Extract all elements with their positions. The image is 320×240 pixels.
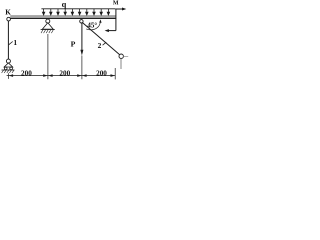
45 degree angle arc	[86, 21, 100, 30]
couple bottom arrow (points left)	[105, 29, 116, 32]
moment couple M: vertical bar	[115, 9, 117, 31]
svg-text:P: P	[71, 39, 76, 48]
pin joint under beam at P (circle)	[80, 20, 83, 23]
svg-text:M: M	[113, 0, 119, 6]
dimension extension line at x=116.6	[114, 68, 116, 79]
dimension extension line at x=47.9	[47, 34, 49, 79]
dim arrows segment 3	[82, 74, 87, 77]
distributed load q: tail line	[41, 8, 115, 10]
dimension line	[7, 75, 116, 77]
middle support hatching	[41, 30, 53, 33]
ground hatching	[2, 70, 14, 73]
svg-text:200: 200	[96, 69, 107, 77]
pin joint K (circle at beam left end)	[7, 17, 11, 21]
dimension extension line at x=8.2	[8, 73, 10, 79]
short post under anchor pin	[120, 58, 122, 69]
svg-text:K: K	[5, 9, 11, 17]
couple top arrow (points right)	[116, 8, 126, 11]
beam (gray bar with dark bottom edge)	[10, 15, 116, 19]
lower pin of rod 1	[6, 59, 10, 63]
force P arrow	[80, 23, 83, 56]
distributed load arrows	[42, 9, 109, 15]
dimension extension line at x=81.9 (below P arrow)	[81, 56, 83, 80]
anchor pin of rod 2	[119, 54, 123, 58]
45 deg arc arrowhead	[99, 19, 101, 22]
svg-text:200: 200	[59, 69, 70, 77]
label 1 leader tick	[9, 42, 13, 45]
roller support under rod 1 (triangle)	[4, 63, 13, 67]
wall line right of anchor pin	[123, 55, 128, 57]
svg-text:2: 2	[98, 41, 102, 50]
middle support ground line	[41, 29, 55, 31]
dim arrows segment 2	[48, 74, 53, 77]
middle support triangle	[42, 23, 53, 29]
svg-text:q: q	[62, 0, 67, 9]
middle pin support: hinge circle	[46, 19, 50, 23]
rod 2 (diagonal link at 45 deg)	[82, 22, 120, 54]
rod 1 (vertical link)	[7, 21, 9, 59]
svg-text:1: 1	[13, 38, 17, 47]
ground line of roller support	[2, 69, 15, 71]
svg-text:200: 200	[21, 69, 32, 77]
label 2 leader tick	[103, 42, 107, 45]
svg-text:45°: 45°	[87, 22, 97, 30]
dim arrows segment 1	[9, 74, 14, 77]
roller circles	[4, 67, 7, 70]
